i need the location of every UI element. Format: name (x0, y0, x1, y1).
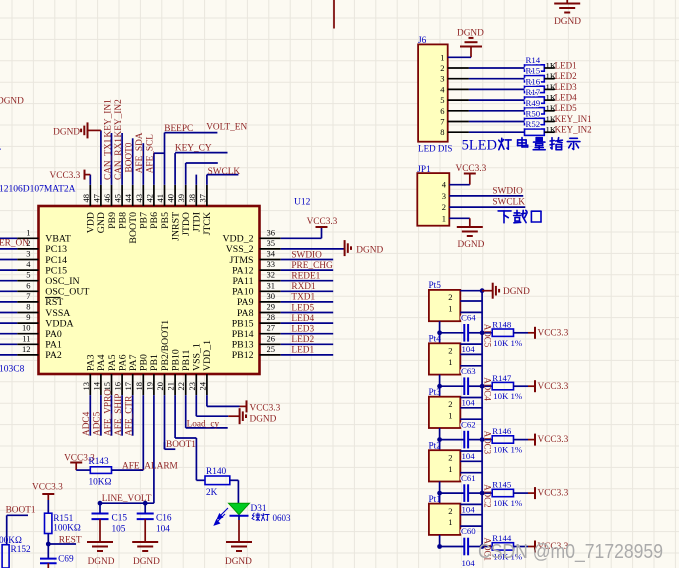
svg-text:PA5: PA5 (107, 354, 118, 371)
resistor R140 (205, 467, 230, 498)
power VCC3.3 at JP1 (456, 164, 487, 185)
pin 32 PA11 wire (232, 270, 333, 287)
svg-text:12106D107MAT2A: 12106D107MAT2A (0, 185, 76, 195)
svg-text:DGND: DGND (53, 128, 80, 138)
svg-text:22: 22 (176, 382, 186, 391)
power VCC3.3 Pt5 (514, 327, 569, 339)
svg-text:PA4: PA4 (96, 354, 107, 371)
svg-text:VCC3.3: VCC3.3 (538, 489, 569, 499)
svg-text:31: 31 (267, 280, 276, 290)
capacitor C64 (440, 313, 483, 355)
svg-text:2: 2 (448, 346, 452, 356)
power VCC3.3 Pt2 (514, 487, 569, 499)
svg-text:R146: R146 (492, 426, 512, 436)
svg-text:10K 1%: 10K 1% (493, 338, 523, 348)
svg-text:LED5: LED5 (291, 303, 314, 313)
svg-text:7: 7 (440, 117, 444, 127)
svg-text:PB15: PB15 (232, 318, 254, 329)
connector Pt3 body (429, 388, 461, 428)
svg-text:43: 43 (134, 194, 144, 203)
pin 4 PC15 wire (0, 259, 67, 276)
svg-text:R145: R145 (492, 480, 512, 490)
wire Pt4 pins loop (460, 344, 482, 366)
net label ADC5 (93, 411, 103, 436)
svg-text:33: 33 (267, 259, 276, 269)
svg-text:32: 32 (267, 270, 276, 280)
resistor R14 row LED1 (440, 55, 576, 73)
svg-text:38: 38 (187, 194, 197, 203)
svg-text:VSSA: VSSA (45, 308, 70, 319)
wire JP1 pin2 SWCLK (442, 198, 526, 213)
svg-text:10: 10 (22, 323, 31, 333)
svg-text:REDE1: REDE1 (291, 272, 320, 282)
pin 42 PB6 stub (144, 153, 160, 229)
svg-text:PB1: PB1 (149, 354, 160, 371)
svg-text:12: 12 (22, 344, 31, 354)
title download port (498, 210, 541, 222)
wire AFE_ALARM (112, 462, 178, 472)
svg-text:DGND: DGND (554, 17, 581, 27)
svg-text:SWDIO: SWDIO (291, 250, 322, 260)
net label REDE1 (291, 272, 320, 282)
pin 12 PA2 wire (0, 344, 62, 361)
svg-text:JP1: JP1 (417, 165, 431, 175)
svg-text:C60: C60 (461, 526, 476, 536)
net label LED2 (291, 335, 314, 345)
svg-text:PA8: PA8 (237, 308, 254, 319)
wire JP1 pin1 (442, 213, 470, 227)
part text 103C8 (0, 365, 25, 375)
wire Pt2 left vertical (437, 482, 442, 504)
wire KEY_CY (175, 152, 227, 154)
svg-text:R17: R17 (526, 87, 541, 97)
svg-text:Pt2: Pt2 (429, 441, 442, 451)
svg-text:8: 8 (440, 127, 444, 137)
svg-text:Pt4: Pt4 (429, 335, 442, 345)
wire Pt3 pins loop (460, 398, 482, 420)
svg-text:R52: R52 (526, 119, 541, 129)
power VCC3.3 at R143 (64, 453, 95, 470)
wire pin20 BOOT1 stub (165, 440, 197, 450)
ground DGND at pin35 (345, 240, 384, 256)
svg-text:20: 20 (155, 382, 165, 391)
svg-text:VCC3.3: VCC3.3 (32, 483, 63, 493)
svg-text:105: 105 (112, 524, 126, 534)
wire R151 to junction (46, 534, 51, 559)
connector JP1 body (417, 165, 449, 226)
svg-text:KEY_CY: KEY_CY (175, 143, 212, 153)
svg-text:RXD1: RXD1 (291, 282, 316, 292)
svg-text:ADC3: ADC3 (482, 431, 492, 455)
power VCC3.3 at R151 (32, 483, 63, 514)
svg-text:103C8: 103C8 (0, 365, 25, 375)
svg-text:VBAT: VBAT (45, 234, 71, 245)
svg-text:104: 104 (462, 558, 476, 568)
svg-text:1: 1 (448, 464, 452, 474)
IC U12 STM32F103C8 body (39, 206, 260, 374)
pin 45 PB8 stub (113, 133, 129, 229)
wire Pt5 right vertical (480, 291, 485, 335)
svg-text:VDDA: VDDA (45, 318, 73, 329)
svg-text:PC15: PC15 (45, 265, 67, 276)
svg-text:PA3: PA3 (86, 354, 97, 371)
svg-text:BOOT1: BOOT1 (6, 505, 36, 515)
ground DGND top right (554, 0, 581, 27)
svg-text:SWCLK: SWCLK (492, 198, 525, 208)
svg-text:KEY_IN2: KEY_IN2 (114, 99, 124, 138)
LED arrows (214, 508, 228, 525)
net label TXD1 (291, 293, 315, 303)
svg-text:BOOT1: BOOT1 (166, 440, 196, 450)
ground DGND under C15 (87, 542, 115, 567)
svg-text:LED DIS: LED DIS (418, 144, 452, 154)
svg-text:ADC5: ADC5 (482, 324, 492, 348)
svg-text:JTCK: JTCK (202, 212, 213, 235)
svg-text:AFE_ALARM: AFE_ALARM (122, 462, 178, 472)
svg-text:1: 1 (448, 517, 452, 527)
resistor R49 row LED5 (440, 98, 577, 116)
svg-text:1: 1 (448, 357, 452, 367)
wire Pt5 left vertical (437, 321, 442, 343)
resistor R50 row KEY_IN1 (440, 109, 591, 127)
svg-text:2: 2 (442, 202, 446, 212)
capacitor C69 (40, 554, 74, 568)
svg-text:C63: C63 (461, 366, 476, 376)
svg-text:DGND: DGND (133, 557, 160, 567)
wire pin21 to R140 (175, 438, 205, 480)
capacitor C61 (440, 473, 483, 515)
svg-text:00KΩ: 00KΩ (0, 536, 22, 546)
svg-text:CSDN @m0_71728959: CSDN @m0_71728959 (478, 540, 663, 563)
wire Pt4 right vertical lower (481, 386, 483, 397)
power VCC3.3 at pin36 (307, 217, 338, 238)
svg-text:39: 39 (176, 194, 186, 203)
svg-text:R147: R147 (492, 373, 512, 383)
wire Pt5 right vertical lower (481, 333, 483, 344)
svg-text:17: 17 (123, 382, 133, 391)
capacitor C63 (440, 366, 483, 408)
resistor R143 (89, 457, 112, 487)
net label CAN_TX1 (103, 138, 113, 180)
wire JP1 pin3 SWDIO (442, 187, 523, 201)
svg-text:3: 3 (442, 191, 446, 201)
svg-text:DGND: DGND (0, 97, 24, 107)
svg-text:36: 36 (267, 227, 276, 237)
pin 8 VSSA wire (0, 302, 70, 319)
svg-text:DGND: DGND (503, 287, 530, 297)
svg-text:U12: U12 (294, 198, 311, 208)
svg-text:PB7: PB7 (139, 212, 150, 229)
pin 23 VSS_1 stub (187, 343, 203, 416)
svg-text:PB11: PB11 (181, 349, 192, 371)
svg-text:10K 1%: 10K 1% (493, 391, 523, 401)
power VCC3.3 Pt4 (514, 380, 569, 392)
svg-text:5: 5 (26, 270, 30, 280)
pin 39 JTDO stub (176, 163, 192, 236)
pin 34 JTMS wire (230, 249, 334, 266)
svg-text:R15: R15 (526, 66, 541, 76)
svg-text:VCC3.3: VCC3.3 (250, 403, 281, 413)
svg-text:JTDO: JTDO (181, 212, 192, 236)
svg-text:5: 5 (440, 95, 444, 105)
svg-text:100KΩ: 100KΩ (53, 524, 81, 534)
svg-text:VCC3.3: VCC3.3 (50, 171, 81, 181)
pin 43 PB7 stub (134, 143, 150, 229)
svg-text:AFE_SHIP: AFE_SHIP (114, 394, 124, 436)
resistor R151 (45, 513, 81, 534)
pin 18 PB0 stub (134, 354, 150, 470)
svg-text:13: 13 (81, 382, 91, 391)
svg-text:21: 21 (166, 382, 176, 391)
svg-text:JTMS: JTMS (230, 255, 254, 266)
svg-text:41: 41 (155, 194, 165, 203)
resistor R144 (482, 533, 523, 561)
svg-text:23: 23 (187, 382, 197, 391)
wire Pt2 right vertical lower (481, 493, 483, 504)
resistor R145 (482, 480, 523, 508)
capacitor C60 (440, 526, 483, 568)
svg-text:104: 104 (156, 524, 170, 534)
pin 41 PB5 stub (155, 133, 171, 229)
pin 48 VDD stub (81, 175, 97, 234)
svg-text:LED1: LED1 (291, 346, 314, 356)
svg-text:JNRST: JNRST (170, 212, 181, 241)
svg-text:2K: 2K (206, 488, 218, 498)
pin 7 RST wire (0, 291, 63, 308)
svg-text:TXD1: TXD1 (291, 293, 315, 303)
wire BOOT1 stub bottom (7, 515, 28, 544)
net label ER_ON (0, 239, 29, 249)
pin 33 PA12 wire (232, 259, 333, 276)
svg-text:PB8: PB8 (117, 212, 128, 229)
designator D31 (251, 504, 267, 514)
svg-text:27: 27 (267, 323, 276, 333)
svg-text:8: 8 (26, 302, 30, 312)
svg-text:1: 1 (26, 227, 30, 237)
svg-text:LED3: LED3 (291, 325, 314, 335)
svg-text:LED2: LED2 (291, 335, 314, 345)
svg-text:37: 37 (197, 194, 207, 203)
svg-text:AFE_VPRO: AFE_VPRO (103, 389, 113, 436)
svg-text:R140: R140 (206, 467, 226, 477)
svg-text:34: 34 (267, 249, 276, 259)
wire LED to DGND (238, 520, 240, 542)
resistor R147 (482, 373, 523, 401)
svg-text:104: 104 (462, 398, 476, 408)
svg-text:R49: R49 (526, 98, 541, 108)
svg-text:R50: R50 (526, 109, 541, 119)
ground DGND above J6 (457, 28, 484, 57)
wire Pt5 pins loop (460, 291, 482, 313)
svg-text:PA0: PA0 (45, 329, 62, 340)
svg-text:R151: R151 (53, 514, 73, 524)
net label AFE_SDA (135, 132, 145, 173)
net label LED3 (291, 325, 314, 335)
svg-text:DGND: DGND (225, 557, 252, 567)
svg-text:ADC4: ADC4 (482, 377, 492, 401)
svg-text:VCC3.3: VCC3.3 (538, 382, 569, 392)
pin 20 PB2/BOOT1 stub (155, 320, 171, 449)
svg-text:KEY_IN1: KEY_IN1 (103, 99, 113, 138)
pin 25 PB12 wire (232, 344, 333, 361)
wire Pt3 right vertical lower (481, 440, 483, 451)
svg-text:OSC_OUT: OSC_OUT (45, 287, 89, 298)
net label PRE_CHG (291, 261, 333, 271)
svg-text:PB2/BOOT1: PB2/BOOT1 (160, 320, 171, 371)
svg-text:CAN_RX1: CAN_RX1 (114, 138, 124, 180)
svg-text:KEY_IN2: KEY_IN2 (555, 125, 592, 135)
svg-text:LED2: LED2 (555, 71, 577, 81)
svg-text:3: 3 (26, 249, 30, 259)
svg-text:6: 6 (26, 280, 30, 290)
connector Pt4 body (429, 335, 461, 375)
svg-text:C69: C69 (58, 554, 74, 564)
svg-text:BOOT0: BOOT0 (125, 142, 135, 172)
pin 44 BOOT0 stub (123, 138, 139, 243)
net label CAN_RX1 (114, 138, 124, 180)
net label LED1 (291, 346, 314, 356)
svg-text:SWDIO: SWDIO (492, 187, 523, 197)
svg-text:ADC4: ADC4 (82, 411, 92, 436)
net label AFE_CTR (125, 395, 135, 436)
net label KEY_CY (175, 143, 212, 153)
svg-text:PB12: PB12 (232, 350, 254, 361)
svg-text:Pt1: Pt1 (429, 495, 442, 505)
value green 0603 (252, 513, 291, 523)
svg-text:VDD_1: VDD_1 (202, 340, 213, 371)
net label KEY_IN1 (103, 99, 113, 138)
svg-text:R152: R152 (11, 545, 31, 555)
svg-text:104: 104 (462, 344, 476, 354)
svg-text:DGND: DGND (457, 28, 484, 38)
svg-text:2: 2 (448, 399, 452, 409)
svg-text:VCC3.3: VCC3.3 (538, 435, 569, 445)
svg-text:VCC3.3: VCC3.3 (538, 328, 569, 338)
svg-text:PB5: PB5 (160, 212, 171, 229)
svg-text:AFE_SDA: AFE_SDA (135, 132, 145, 173)
svg-text:24: 24 (197, 381, 207, 390)
wire pin42 hook (154, 152, 165, 154)
wire SWCLK (207, 174, 239, 176)
svg-text:3: 3 (440, 74, 444, 84)
net label BOOT0 (125, 142, 135, 172)
pin 46 PB9 stub (102, 133, 118, 229)
ground DGND at pin47 (53, 122, 101, 138)
svg-text:AFE_CTR: AFE_CTR (125, 395, 135, 436)
pin 13 PA3 stub (81, 354, 97, 435)
power VCC3.3 at pin48 (50, 170, 91, 181)
pin 6 OSC_OUT wire (0, 280, 89, 297)
svg-text:44: 44 (123, 193, 133, 202)
pin 9 VDDA wire (0, 312, 74, 329)
svg-text:46: 46 (102, 194, 112, 203)
svg-text:BOOT0: BOOT0 (128, 212, 139, 244)
svg-text:PA2: PA2 (45, 350, 62, 361)
svg-text:ER_ON: ER_ON (0, 239, 29, 249)
svg-text:PA10: PA10 (232, 287, 254, 298)
blue glyph left edge (0, 143, 2, 153)
svg-text:28: 28 (267, 312, 276, 322)
ground DGND under LED (225, 542, 252, 567)
wire pin23 to DGND (196, 408, 276, 424)
wire Pt1 right vertical (480, 504, 485, 548)
svg-text:1: 1 (448, 304, 452, 314)
svg-text:10KΩ: 10KΩ (89, 477, 112, 487)
ground DGND at Pt5 (480, 283, 530, 299)
svg-text:11: 11 (22, 333, 30, 343)
pin 21 PB10 stub (166, 349, 182, 438)
svg-text:C62: C62 (461, 419, 476, 429)
svg-text:PB0: PB0 (139, 354, 150, 371)
resistor R146 (482, 426, 523, 454)
pin 19 PB1 stub (144, 354, 160, 503)
pin 11 PA1 wire (0, 333, 62, 350)
resistor R52 row KEY_IN2 (440, 119, 591, 137)
ground DGND under JP1 (457, 227, 485, 250)
wire Pt2 pins loop (460, 451, 482, 473)
pin 47 GND stub (91, 130, 107, 233)
svg-text:VOLT_EN: VOLT_EN (206, 123, 247, 133)
svg-text:LED4: LED4 (555, 93, 577, 103)
svg-text:10K 1%: 10K 1% (493, 498, 523, 508)
pin 27 PB14 wire (232, 323, 333, 340)
svg-text:35: 35 (267, 238, 276, 248)
capacitor C62 (440, 419, 483, 461)
svg-text:CAN_TX1: CAN_TX1 (103, 138, 113, 180)
pin 38 JTDI stub (187, 175, 203, 233)
svg-text:48: 48 (81, 194, 91, 203)
pin 3 PC14 wire (0, 249, 67, 266)
wire Pt1 left vertical (437, 535, 442, 549)
net label KEY_IN2 (114, 99, 124, 138)
pin 31 PA10 wire (232, 280, 333, 297)
wire pin22 Load_cy (186, 419, 228, 429)
net label ADC4 (82, 411, 92, 436)
pin 5 OSC_IN wire (0, 270, 80, 287)
pin 17 PA7 stub (123, 354, 139, 435)
wire Pt2 right vertical (480, 451, 485, 496)
svg-text:PA6: PA6 (117, 354, 128, 371)
pin 24 VDD_1 stub (197, 340, 213, 407)
svg-text:10K 1%: 10K 1% (493, 445, 523, 455)
svg-text:R16: R16 (526, 76, 541, 86)
resistor R148 (482, 319, 523, 347)
connector Pt1 body (429, 495, 461, 535)
LED D31 (229, 503, 250, 520)
net label RXD1 (291, 282, 316, 292)
net label SWCLK (208, 167, 241, 177)
svg-text:LED1: LED1 (555, 60, 577, 70)
net label ADC4 (482, 377, 492, 401)
wire Pt1 pins loop (460, 504, 482, 526)
svg-text:LED5: LED5 (555, 103, 577, 113)
svg-text:DGND: DGND (88, 557, 115, 567)
svg-text:VDD_2: VDD_2 (222, 234, 253, 245)
svg-text:DGND: DGND (250, 414, 277, 424)
net label VOLT_EN (206, 123, 247, 133)
wire BEEPC VOLT_EN (165, 132, 218, 134)
pin 37 JTCK stub (197, 175, 213, 236)
pin 29 PA8 wire (237, 302, 333, 319)
svg-text:JTDI: JTDI (192, 212, 203, 232)
net label LINE_VOLT (102, 494, 152, 504)
svg-text:1: 1 (440, 52, 444, 62)
svg-text:LED3: LED3 (555, 82, 577, 92)
svg-text:BEEPC: BEEPC (164, 124, 193, 134)
svg-text:PB9: PB9 (107, 212, 118, 229)
resistor R17 row LED4 (440, 87, 577, 105)
net label AFE_VPRO (103, 389, 113, 436)
